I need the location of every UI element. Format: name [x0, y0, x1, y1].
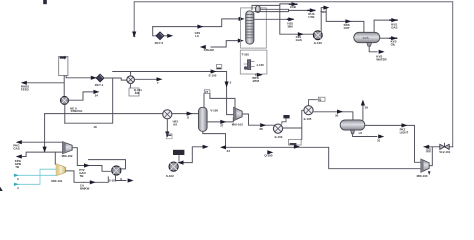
stream C2S GAS [298, 32, 304, 36]
wire lower split line [26, 152, 63, 156]
svg-text:409: 409 [135, 91, 140, 95]
wire E-100 right stub [134, 78, 159, 80]
exchanger E-100 [127, 76, 135, 84]
wire S-101 top inlet [89, 160, 126, 169]
top-left small feed mark [43, 0, 47, 4]
svg-text:FEED: FEED [21, 88, 29, 92]
column T-100 [246, 11, 254, 44]
svg-text:VLV-101: VLV-101 [439, 150, 450, 154]
compressor G-100 [313, 31, 322, 40]
svg-text:STB/CIG: STB/CIG [71, 109, 83, 113]
mixer MIX-101 (yellow) [56, 164, 66, 176]
wire tank to RCY-1 [66, 76, 96, 78]
svg-text:KVS: KVS [363, 36, 369, 40]
wire V-100 side to MIX-103 [207, 118, 233, 122]
big recycle loop wire (top + right side) [134, 2, 453, 147]
wire V-100 top + 27 box [203, 94, 205, 108]
cooler S-102 [169, 162, 178, 171]
tank top dark arrow [60, 56, 67, 60]
svg-text:30: 30 [335, 113, 339, 117]
stream 24 long line to MIX-100 [226, 147, 420, 168]
svg-text:WATER: WATER [376, 57, 387, 61]
wire condenser outlets [254, 9, 308, 11]
cooler E-103 [273, 124, 282, 133]
svg-text:3: 3 [230, 80, 232, 84]
wire E-100 top long line to MIX-103 [113, 72, 234, 115]
column sub-flowsheet box T-100 [241, 8, 267, 48]
valve VLV-101 [440, 143, 449, 149]
wire KVS liquid out [380, 37, 390, 39]
svg-text:BMKW: BMKW [80, 187, 90, 191]
svg-text:BTM: BTM [253, 79, 260, 83]
separator KVS (horizontal drum) [354, 32, 380, 42]
svg-text:LV: LV [359, 131, 363, 135]
wire compressor discharge [321, 8, 364, 33]
stream KVS WATER [379, 50, 385, 54]
wire tank to pump [63, 76, 65, 97]
svg-text:27: 27 [220, 123, 224, 127]
wire PKZ bottoms [353, 134, 377, 137]
svg-text:MIX-102: MIX-102 [62, 154, 73, 158]
wire MIX-102 out [72, 148, 110, 172]
wire MIX-103 out to E-103 [242, 114, 274, 125]
stream TOP VAP [308, 9, 315, 11]
svg-text:RCY-1: RCY-1 [95, 83, 104, 87]
svg-text:31: 31 [377, 139, 381, 143]
svg-text:8: 8 [187, 115, 189, 119]
wire compressor suction [280, 5, 314, 34]
wire pump outlet to stub arrow [68, 92, 93, 100]
svg-text:24: 24 [227, 149, 231, 153]
svg-text:GAS: GAS [13, 147, 19, 151]
energy Q-104 [173, 150, 184, 155]
svg-text:11: 11 [133, 34, 136, 38]
stream WTR BTM tick [255, 74, 257, 75]
svg-text:T-100: T-100 [242, 52, 250, 56]
PKZ vapor stub [362, 105, 364, 120]
stream KVS GAS [390, 19, 397, 21]
wire E-102 to V-100 [172, 113, 198, 115]
cyan stream 3 [14, 174, 56, 176]
svg-text:3: 3 [17, 177, 19, 181]
E-102 bottom stub + box [166, 119, 168, 136]
svg-text:10: 10 [427, 149, 431, 153]
wire E-103 to E-105 [283, 110, 304, 139]
wire lower feed to S-101 [84, 177, 109, 182]
svg-text:UYB: UYB [308, 15, 314, 19]
condenser drum (small oval) [255, 6, 260, 13]
KVS boot [367, 43, 372, 47]
stream H2S BIN [288, 18, 293, 20]
wire RCY-2 outlet stub [164, 35, 170, 37]
wire column top to C2B [252, 4, 290, 10]
stream STEAM [211, 41, 240, 47]
svg-text:29: 29 [365, 106, 369, 110]
svg-text:G-100: G-100 [314, 41, 322, 45]
wire to column (upper) [153, 19, 240, 27]
wire to MIX-101 top [54, 152, 56, 164]
svg-text:MIX-101: MIX-101 [51, 179, 62, 183]
svg-text:E-105: E-105 [304, 117, 312, 121]
mini column icon inside box [244, 60, 255, 70]
wire column side outlet [254, 18, 288, 20]
bottom-left corner mark [0, 187, 3, 191]
cooler E-105 [304, 106, 313, 115]
svg-text:TRS: TRS [320, 10, 326, 14]
stream KRS tick [323, 6, 329, 10]
svg-text:OIL: OIL [391, 42, 396, 46]
svg-text:E-100: E-100 [209, 73, 217, 77]
svg-text:STEAM: STEAM [204, 48, 215, 52]
svg-text:7B: 7B [15, 165, 19, 169]
vessel V-100 [199, 107, 208, 131]
svg-text:MIX-100: MIX-100 [417, 174, 428, 178]
heater box on line [289, 139, 302, 145]
svg-text:V-100: V-100 [210, 109, 218, 113]
svg-text:GAS: GAS [391, 25, 397, 29]
wire KVS water out [369, 46, 377, 52]
wire V1 (down from header) [44, 114, 46, 153]
wire pump bottom / main liquid header [45, 104, 163, 123]
wire V-100 bottom [203, 131, 226, 147]
exchanger E-102 [163, 110, 172, 119]
wire MIX-101 out [66, 171, 84, 182]
stream KVS OIL [390, 37, 397, 39]
PKZ boot [351, 130, 355, 134]
separator PKZ (horizontal drum) [340, 120, 365, 130]
mixer MIX-100 [421, 159, 429, 172]
wire RCY-1 out / down / return [65, 78, 127, 123]
wire KVS gas out [374, 20, 390, 32]
label 10 box [426, 149, 430, 152]
svg-text:1-100: 1-100 [256, 63, 264, 67]
pump P-100 [61, 96, 69, 104]
energy box below E-100 [129, 83, 131, 88]
label Q-105 [267, 150, 273, 154]
cyan stream 4 [14, 169, 56, 184]
stream RHDS FEED [23, 82, 65, 84]
recycle RCY-2 [156, 32, 164, 40]
wire E-105 to PKZ drum [313, 112, 353, 120]
svg-text:C2B: C2B [290, 5, 296, 9]
loop end arrow (down) [132, 32, 136, 38]
svg-text:Q-105: Q-105 [264, 154, 272, 158]
wire PKZ liquid to MIX-100 [365, 125, 420, 162]
svg-text:MIX-103: MIX-103 [232, 123, 243, 127]
svg-text:RCY-2: RCY-2 [155, 41, 164, 45]
svg-text:24: 24 [95, 93, 99, 97]
arrow down + label 3 [225, 82, 229, 88]
svg-text:7: 7 [157, 81, 159, 85]
svg-text:4: 4 [17, 186, 19, 190]
svg-text:S-102: S-102 [166, 174, 174, 178]
cooler S-101 [112, 166, 121, 175]
svg-text:BIN: BIN [288, 24, 293, 28]
stream C2B [292, 2, 298, 6]
svg-text:TB: TB [80, 174, 84, 178]
stream PKZ LIGHT [402, 123, 408, 127]
energy Q-103 [283, 115, 289, 118]
recycle RCY-1 [96, 74, 104, 82]
wire S-102 inlet [179, 147, 207, 163]
MIX-100 outlet [429, 147, 432, 166]
svg-text:E-103: E-103 [275, 135, 283, 139]
wire zigzag to MIX-103 top [210, 94, 235, 108]
mixer MIX-103 [234, 107, 243, 120]
svg-text:27: 27 [205, 90, 209, 94]
wire S-101 bottom out [116, 175, 127, 180]
mixer MIX-102 [63, 142, 73, 154]
dark mark below mixer tip [428, 171, 431, 175]
svg-text:LIGHT: LIGHT [400, 130, 409, 134]
small box on line [216, 65, 221, 69]
svg-text:28: 28 [259, 127, 263, 131]
svg-text:OUT: OUT [344, 26, 350, 30]
stream KRS OUT [345, 19, 351, 23]
wire valve line [424, 146, 453, 148]
wire RCY-2 inlet [153, 27, 156, 36]
svg-text:18: 18 [93, 125, 97, 129]
svg-text:GAS: GAS [296, 38, 302, 42]
stream product 2 [17, 156, 26, 158]
stream PKG GAS [17, 141, 63, 143]
energy Q-102 [309, 100, 318, 106]
feed tank (tall rect) [59, 56, 68, 75]
